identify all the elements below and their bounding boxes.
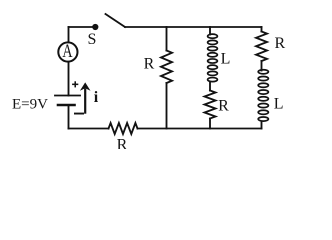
svg-text:A: A bbox=[62, 40, 72, 61]
svg-text:L: L bbox=[274, 95, 284, 112]
svg-text:i: i bbox=[94, 89, 99, 106]
svg-text:R: R bbox=[144, 56, 155, 73]
svg-text:R: R bbox=[117, 136, 128, 149]
svg-text:R: R bbox=[218, 98, 229, 115]
svg-text:L: L bbox=[221, 50, 231, 67]
svg-text:R: R bbox=[274, 35, 285, 52]
svg-text:E=9V: E=9V bbox=[12, 97, 48, 113]
svg-text:S: S bbox=[88, 31, 97, 48]
